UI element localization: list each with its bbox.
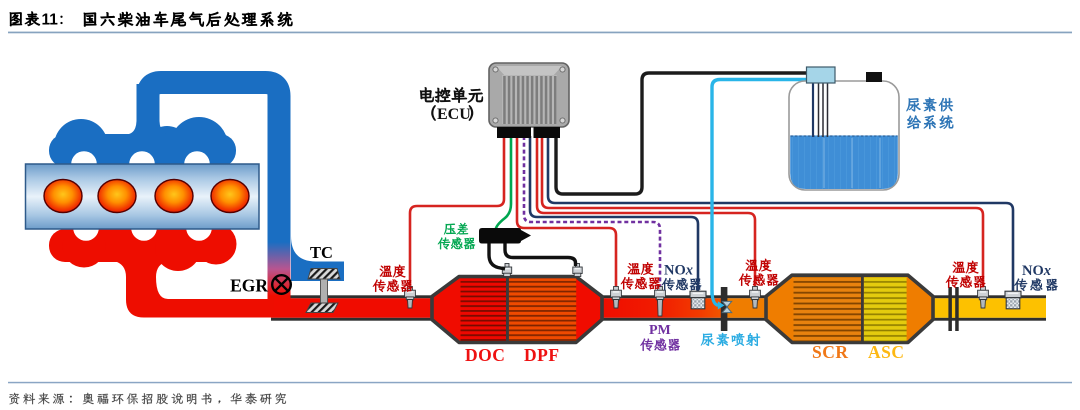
red manifold port cutouts — [73, 215, 212, 241]
urea injector nozzle — [722, 301, 731, 312]
SCR ASC canister body — [766, 275, 933, 342]
cylinder 2 — [98, 180, 136, 213]
ECU connector left — [497, 127, 531, 138]
blue intake manifold — [49, 84, 236, 175]
urea injection label — [701, 333, 760, 346]
svg-text:TC: TC — [310, 243, 333, 262]
NOx sensor 2 box — [1005, 291, 1021, 309]
ECU connector right — [534, 127, 561, 138]
temperature sensor 3 label — [739, 259, 778, 286]
urea tank liquid — [790, 136, 898, 190]
title separator rule — [8, 32, 1072, 34]
DPF inlet pressure tap bolt — [502, 264, 511, 277]
DPF substrate grid — [509, 278, 577, 340]
temperature sensor 1 label — [373, 265, 412, 292]
intake loop pipe — [148, 83, 279, 141]
wire red to temperature sensor 1 — [410, 136, 504, 287]
urea spray arrow — [712, 290, 725, 310]
pressure sensor tube 2 — [505, 243, 576, 266]
DOC DPF canister body — [432, 277, 602, 343]
pressure sensor body — [479, 228, 531, 244]
svg-text:DPF: DPF — [524, 345, 560, 365]
EGR pipe blue-red gradient — [268, 242, 291, 299]
wire navy to NOx sensor 1 — [530, 136, 698, 291]
turbo elbow pipe — [291, 236, 344, 281]
DPF outlet pressure tap bolt — [573, 264, 582, 277]
temperature sensor 4 label — [946, 261, 985, 288]
SCR ASC divider — [861, 276, 864, 342]
urea tank filler cap — [807, 67, 836, 83]
svg-text:ASC: ASC — [868, 342, 905, 362]
cylinder 3 — [155, 180, 193, 213]
urea suction tubes — [813, 83, 828, 137]
wire cyan urea line — [712, 80, 818, 297]
turbo bottom mount — [306, 303, 338, 313]
wire red to temperature sensor 4 — [542, 136, 983, 287]
wire red to temperature sensor 3 — [537, 136, 755, 287]
ECU corner screws — [493, 67, 565, 123]
exhaust pipe segment 3 / tailpipe — [930, 295, 1046, 320]
svg-text:SCR: SCR — [812, 342, 849, 362]
blue manifold port cutouts — [71, 151, 210, 177]
PM sensor label — [640, 323, 679, 351]
temperature sensor 2 label — [621, 262, 660, 289]
wire green to pressure sensor — [496, 136, 512, 230]
urea injector flange — [721, 287, 728, 331]
PM sensor bolt — [655, 287, 666, 317]
urea tank body — [789, 81, 899, 190]
turbo shaft — [321, 279, 328, 304]
pressure sensor label — [438, 223, 475, 249]
pressure sensor tube 1 — [489, 243, 505, 269]
tailpipe flange pair — [948, 287, 958, 331]
NOx sensor 1 label — [662, 263, 701, 291]
intake downpipe — [268, 118, 291, 244]
urea liquid surface line — [791, 135, 898, 137]
source note — [9, 393, 286, 405]
wire black to urea tank — [556, 73, 812, 194]
NOx sensor 2 label — [1014, 263, 1057, 291]
svg-text:NOx: NOx — [664, 263, 693, 279]
exhaust pipe segment 1 — [271, 295, 439, 320]
red exhaust manifold — [49, 224, 237, 272]
ECU body — [489, 63, 569, 127]
DOC DPF divider — [506, 278, 509, 343]
svg-text:DOC: DOC — [465, 345, 505, 365]
temperature sensor 2 bolt — [611, 287, 622, 309]
engine red exhaust outlet pipe — [114, 261, 274, 318]
ECU label line 2 — [432, 106, 473, 123]
wire purple dashed to PM sensor — [524, 136, 660, 289]
title text system name — [84, 12, 292, 27]
wire navy to NOx sensor 2 — [548, 136, 1013, 291]
DOC substrate grid — [461, 278, 507, 340]
engine block — [26, 164, 260, 229]
wire red to temperature sensor 2 — [517, 136, 616, 287]
ECU cooling fins — [503, 76, 556, 124]
svg-text:11: 11 — [42, 12, 59, 29]
NOx sensor 1 box — [690, 291, 706, 309]
cylinder 4 — [211, 180, 249, 213]
temperature sensor 1 bolt — [405, 287, 416, 309]
urea tank panel seams — [824, 138, 880, 188]
footer separator rule — [8, 382, 1072, 384]
svg-text:NOx: NOx — [1022, 263, 1051, 279]
svg-text:EGR: EGR — [230, 276, 268, 296]
turbo top mount — [308, 269, 340, 280]
ASC substrate grid — [864, 277, 907, 341]
urea supply system label — [907, 98, 954, 129]
ECU label line 1 — [420, 87, 482, 102]
exhaust pipe segment 2 — [599, 295, 769, 320]
cylinder 1 — [44, 180, 82, 213]
title text 图表11 — [10, 12, 63, 29]
temperature sensor 3 bolt — [750, 287, 761, 309]
svg-text:ECU: ECU — [437, 106, 471, 123]
svg-text:PM: PM — [649, 323, 671, 338]
temperature sensor 4 bolt — [978, 287, 989, 309]
EGR valve symbol — [272, 275, 291, 294]
urea tank vent cap — [866, 72, 882, 82]
SCR substrate grid — [794, 277, 862, 341]
